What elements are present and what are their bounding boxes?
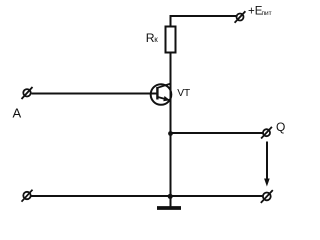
svg-text:A: A xyxy=(13,106,22,121)
svg-text:Q: Q xyxy=(276,120,285,134)
svg-text:VT: VT xyxy=(177,88,191,99)
svg-text:+E: +E xyxy=(248,6,263,18)
svg-text:к: к xyxy=(154,35,158,44)
svg-text:пит: пит xyxy=(262,10,272,17)
